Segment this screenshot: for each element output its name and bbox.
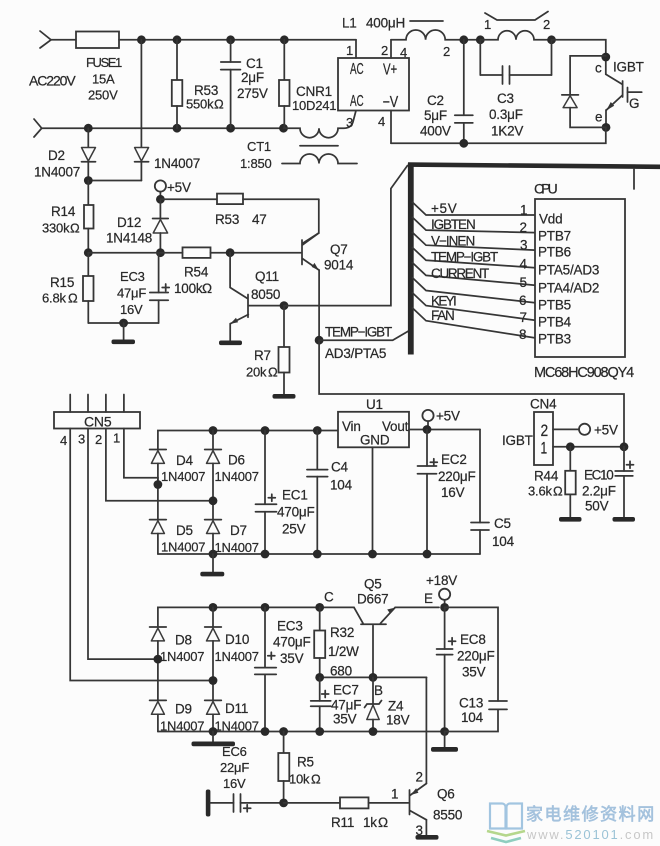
terminal +5V (U1) [422, 409, 460, 430]
svg-text:D9: D9 [175, 702, 192, 717]
svg-text:6.8k: 6.8k [42, 291, 66, 306]
svg-text:PTB4: PTB4 [538, 315, 572, 330]
svg-text:www.520101.com: www.520101.com [526, 827, 653, 842]
svg-text:1N4007: 1N4007 [161, 469, 205, 484]
svg-text:1N4007: 1N4007 [34, 165, 80, 180]
node D11 bottom [209, 727, 218, 736]
svg-text:R32: R32 [330, 625, 354, 640]
node D6 top [209, 426, 218, 435]
resistor R5 10k [278, 732, 321, 803]
svg-text:20k: 20k [246, 365, 267, 380]
wire top AC rail [119, 39, 356, 41]
ground below D11 [192, 732, 236, 747]
wire CN4 pin2 to +5V [553, 428, 579, 430]
svg-text:R11: R11 [331, 815, 354, 830]
svg-text:−V: −V [383, 94, 399, 111]
resistor R54 100k [174, 247, 212, 296]
pan symbol above coil [485, 12, 548, 21]
svg-text:1k: 1k [363, 815, 377, 830]
svg-text:KEYI: KEYI [431, 294, 457, 309]
svg-text:8050: 8050 [251, 287, 280, 302]
svg-text:+18V: +18V [426, 573, 457, 588]
svg-text:CURRENT: CURRENT [431, 266, 489, 281]
svg-text:R7: R7 [254, 348, 271, 363]
svg-text:35V: 35V [462, 665, 486, 680]
svg-text:G: G [629, 96, 639, 111]
svg-text:16V: 16V [223, 776, 246, 791]
IC U1 regulator [338, 397, 409, 448]
svg-text:Z4: Z4 [388, 699, 404, 714]
svg-text:CN4: CN4 [530, 397, 557, 412]
diode D6 1N4007 [205, 431, 259, 520]
svg-text:IGBT: IGBT [502, 433, 533, 448]
svg-text:47μF: 47μF [117, 286, 146, 301]
svg-text:10D241: 10D241 [292, 98, 336, 113]
terminal +5V (D12) [155, 180, 191, 199]
svg-text:1N4007: 1N4007 [215, 540, 259, 555]
resistor R53 47 (drive) [160, 194, 318, 227]
svg-text:1: 1 [346, 43, 353, 58]
svg-text:c: c [595, 61, 602, 76]
capacitor EC6 22uF 16V [206, 744, 284, 817]
capacitor EC1 470uF 25V [256, 431, 315, 555]
svg-text:FUSE1: FUSE1 [86, 55, 122, 70]
svg-text:CNR1: CNR1 [296, 84, 332, 99]
watermark logo book [487, 804, 525, 843]
svg-text:Ω: Ω [70, 221, 80, 236]
svg-text:Vdd: Vdd [539, 212, 562, 227]
svg-text:2: 2 [520, 220, 527, 235]
svg-text:275V: 275V [237, 86, 268, 101]
resistor R14 330k [42, 181, 94, 253]
node EC7 bottom [315, 727, 324, 736]
svg-text:550k: 550k [186, 97, 214, 112]
svg-text:C3: C3 [497, 91, 514, 106]
node EC10 top [620, 442, 629, 451]
svg-text:1N4007: 1N4007 [161, 540, 205, 555]
svg-text:2: 2 [381, 43, 388, 58]
ground EC10 [613, 517, 636, 522]
svg-text:D2: D2 [48, 148, 65, 163]
connector CN5 [54, 412, 140, 430]
wire D2-D3 junction [88, 180, 141, 182]
svg-text:50V: 50V [585, 499, 609, 514]
node Q5 base / Z4 [369, 673, 383, 698]
svg-text:R14: R14 [51, 204, 76, 219]
wire bus to pin1 +5V [413, 201, 536, 216]
node C4 bottom [313, 550, 322, 559]
pin stub CN5 top 4 [69, 395, 71, 413]
node D8/D9 junction [154, 655, 163, 664]
varistor CNR1 10D241 [279, 40, 336, 128]
svg-text:PTB3: PTB3 [538, 332, 571, 347]
svg-text:GND: GND [360, 433, 390, 448]
svg-text:EC8: EC8 [460, 632, 486, 647]
svg-text:6: 6 [519, 293, 526, 308]
svg-text:3.6k: 3.6k [528, 484, 552, 499]
svg-text:1: 1 [484, 17, 491, 32]
pin 4 bridge [378, 111, 391, 144]
svg-text:V−INEN: V−INEN [431, 234, 475, 249]
svg-text:Ω: Ω [268, 365, 278, 380]
wire L1 to coil [464, 39, 481, 41]
connector CN4 [502, 397, 557, 466]
svg-text:1N4007: 1N4007 [215, 469, 259, 484]
transformer CT1 1:850 [240, 111, 357, 172]
resistor R44 3.6k [528, 447, 576, 517]
bus stub mark [633, 169, 635, 189]
diode D12 1N4148 [106, 199, 168, 252]
svg-text:IGBTEN: IGBTEN [431, 217, 476, 232]
pin number 3 [520, 238, 527, 253]
node R5 top [279, 727, 288, 736]
diode D3 1N4007 (from fuse node) [135, 40, 200, 181]
diode D5 1N4007 [150, 520, 206, 555]
svg-text:250V: 250V [88, 88, 118, 103]
node D10 top [209, 603, 218, 612]
svg-text:35V: 35V [280, 651, 304, 666]
node D6/D7 junction [209, 496, 218, 505]
svg-text:V+: V+ [383, 62, 397, 79]
transistor Q11 8050 [230, 253, 284, 324]
svg-text:22μF: 22μF [220, 760, 249, 775]
pin 3 bridge [346, 115, 353, 130]
resistor R53 550k [172, 40, 224, 128]
svg-text:470μF: 470μF [277, 505, 315, 520]
pin stub CN5 top 2 [105, 395, 107, 413]
svg-text:2: 2 [541, 422, 549, 440]
node D7 bottom [209, 550, 218, 559]
label AC220V [29, 73, 76, 89]
node D10/D11 junction [209, 676, 218, 685]
node top rail R53 [173, 35, 182, 44]
svg-text:104: 104 [492, 534, 515, 549]
pin stub CN5 top 3 [87, 395, 89, 413]
svg-text:Q5: Q5 [364, 577, 382, 592]
svg-text:IGBT: IGBT [613, 60, 644, 75]
node top rail CNR1 [280, 35, 289, 44]
resistor R15 6.8k [42, 253, 94, 323]
wire 5V ground rail [158, 553, 480, 555]
pin stub CN5 top 1 [123, 395, 125, 413]
damper diode across IGBT [562, 56, 606, 128]
svg-text:2: 2 [543, 17, 550, 32]
ground below R15/EC3 [112, 323, 136, 344]
ground Q11 emitter [219, 324, 242, 346]
svg-text:47: 47 [252, 212, 267, 227]
svg-text:Vin: Vin [342, 419, 361, 434]
svg-text:4: 4 [400, 45, 407, 60]
svg-text:1N4148: 1N4148 [106, 231, 152, 246]
wire U1 GND [372, 447, 374, 554]
node ground link [119, 319, 128, 328]
node bottom rail R53 [173, 124, 182, 133]
svg-text:+5V: +5V [594, 423, 618, 438]
svg-text:9014: 9014 [324, 258, 354, 273]
wire CN4 pin1 rail [553, 446, 624, 448]
svg-text:Q6: Q6 [437, 787, 455, 802]
svg-text:U1: U1 [366, 397, 383, 412]
svg-text:TEMP−IGBT: TEMP−IGBT [431, 250, 498, 265]
capacitor EC7 47uF 35V [311, 677, 362, 731]
svg-text:400V: 400V [420, 124, 451, 139]
svg-text:D7: D7 [230, 523, 247, 538]
svg-text:Ω: Ω [378, 815, 388, 830]
wire L1-input to fuse [51, 39, 76, 41]
node bottom rail D2 [84, 124, 93, 133]
capacitor EC10 2.2uF 50V [582, 447, 634, 517]
svg-text:TEMP−IGBT: TEMP−IGBT [325, 325, 392, 340]
svg-text:0.3μF: 0.3μF [489, 107, 523, 122]
svg-text:7: 7 [520, 310, 527, 325]
node bottom rail CNR1/CT1 [279, 124, 288, 133]
node EC1 bottom [261, 550, 270, 559]
svg-text:Ω: Ω [214, 97, 224, 112]
wire bus to pin7 KEYI [413, 293, 536, 320]
svg-text:PTB5: PTB5 [538, 298, 571, 313]
svg-text:EC6: EC6 [222, 744, 247, 759]
inductor L1 400uH [342, 16, 464, 61]
resistor R11 1k [284, 797, 409, 830]
wire TEMP-IGBT to bus [319, 325, 408, 362]
wire base rail Q7 [88, 252, 301, 254]
wire Q7 emitter down [318, 270, 320, 340]
diode D4 1N4007 [150, 450, 206, 520]
node IGBT collector [601, 53, 610, 62]
svg-text:+5V: +5V [431, 201, 457, 216]
svg-text:C: C [324, 590, 334, 605]
svg-text:220μF: 220μF [457, 649, 495, 664]
svg-text:EC1: EC1 [282, 488, 308, 503]
diode D8 1N4007 [150, 627, 205, 700]
pin number 8 [519, 327, 526, 342]
svg-text:Q11: Q11 [255, 269, 279, 284]
svg-text:Ω: Ω [311, 772, 321, 787]
svg-text:4: 4 [60, 433, 67, 448]
zener Z4 18V [365, 677, 410, 731]
pin 2 bridge [381, 40, 391, 58]
wire bus to pin5 CURRENT [413, 263, 536, 286]
svg-text:5: 5 [520, 275, 527, 290]
svg-text:10k: 10k [289, 772, 310, 787]
svg-text:C2: C2 [427, 93, 444, 108]
svg-text:R5: R5 [297, 755, 314, 770]
svg-text:+5V: +5V [436, 409, 460, 424]
node C2 bottom [459, 139, 468, 148]
svg-text:R44: R44 [534, 469, 559, 484]
pin number 2 [520, 220, 527, 235]
svg-text:1: 1 [113, 431, 120, 446]
wire B rail [320, 676, 427, 678]
node Q11 collector [280, 301, 289, 310]
wire bus to pin4 TEMP-IGBT [413, 248, 536, 268]
wire +5V top rail [158, 431, 338, 450]
svg-text:1: 1 [520, 203, 527, 218]
capacitor EC2 220uF 16V [418, 430, 476, 555]
node EC2 bottom [423, 550, 432, 559]
svg-text:EC2: EC2 [441, 452, 467, 467]
wire 18V top rail [158, 607, 354, 627]
pin number 1 [520, 203, 527, 218]
svg-text:2: 2 [95, 432, 102, 447]
svg-text:1: 1 [391, 787, 398, 802]
svg-text:PTB6: PTB6 [538, 245, 571, 260]
node EC3b bottom [261, 727, 270, 736]
pin number 5 [520, 275, 527, 290]
svg-text:8: 8 [519, 327, 526, 342]
node fuse output [137, 35, 146, 44]
svg-text:2μF: 2μF [241, 70, 264, 85]
node U1 GND bottom [368, 550, 377, 559]
wire 18V ground rail [158, 731, 445, 733]
wire R53-47 to Q7 collector [302, 199, 319, 243]
svg-text:AC: AC [350, 93, 364, 110]
svg-text:1/2W: 1/2W [328, 644, 359, 659]
svg-text:FAN: FAN [431, 308, 455, 323]
node R44 top [566, 442, 575, 451]
wire R15/EC3 ground link [88, 322, 158, 324]
bus bar horizontal [408, 162, 660, 169]
terminal +5V (CN4) [579, 423, 618, 438]
svg-text:680: 680 [330, 664, 352, 679]
svg-text:B: B [374, 683, 383, 698]
svg-text:EC7: EC7 [333, 683, 359, 698]
pin 2 CN5 [95, 429, 213, 501]
node Z4 bottom [369, 727, 378, 736]
node EC3b top [261, 603, 270, 612]
bridge rectifier BD1 [338, 58, 409, 111]
pin number 7 [520, 310, 527, 325]
svg-text:1K2V: 1K2V [491, 124, 523, 139]
wire bus to pin3 V-INEN [413, 233, 536, 251]
svg-text:R53: R53 [215, 212, 239, 227]
wire Q11 collector to bus top [284, 166, 408, 306]
pin 4 CN5 [60, 429, 213, 681]
svg-text:D6: D6 [228, 453, 245, 468]
svg-text:CN5: CN5 [84, 414, 112, 430]
capacitor C4 104 [307, 431, 353, 555]
induction heating coil [480, 17, 551, 40]
svg-text:CPU: CPU [534, 181, 558, 197]
svg-text:2.2μF: 2.2μF [582, 484, 616, 499]
node D12 bottom / EC3 top [156, 248, 165, 257]
ground R44 [559, 517, 582, 522]
capacitor C1 [221, 40, 268, 128]
ground EC8 [431, 732, 458, 752]
diode D7 1N4007 [205, 520, 259, 555]
watermark text 520101 [526, 804, 654, 842]
ground Q6 collector [416, 835, 439, 840]
svg-text:Q7: Q7 [330, 242, 348, 257]
svg-text:2: 2 [416, 770, 423, 785]
svg-text:5μF: 5μF [424, 108, 447, 123]
node EC2 top [423, 425, 432, 434]
pin 1 CN5 [113, 429, 158, 485]
svg-text:35V: 35V [333, 712, 357, 727]
wire Q7 emitter to CN4 rail [319, 340, 624, 447]
node R54 out [226, 248, 235, 257]
terminal +18V [426, 573, 457, 607]
svg-text:D4: D4 [176, 453, 194, 468]
node C3 left / coil 1 [476, 35, 485, 44]
pin number 6 [519, 293, 526, 308]
node TEMP-IGBT tap [315, 336, 324, 345]
transistor Q6 8550 [391, 677, 462, 838]
svg-text:3: 3 [520, 238, 527, 253]
ground below D7 [200, 554, 224, 576]
svg-text:C1: C1 [246, 56, 263, 71]
svg-text:PTA4/AD2: PTA4/AD2 [538, 281, 599, 296]
svg-text:L1: L1 [342, 16, 357, 31]
capacitor C3 0.3uF 1K2V [480, 40, 551, 139]
node R32/EC7 [315, 673, 324, 682]
bus bar vertical [408, 163, 414, 355]
svg-text:PTA5/AD3: PTA5/AD3 [538, 263, 599, 278]
svg-text:100k: 100k [174, 281, 203, 296]
IC CPU MC68HC908QY4 [534, 181, 634, 382]
pin 1 bridge [346, 40, 356, 58]
svg-text:1N4007: 1N4007 [215, 649, 259, 664]
svg-text:EC3: EC3 [120, 269, 145, 284]
node EC8 bottom [440, 727, 449, 736]
svg-text:15A: 15A [92, 72, 115, 87]
diode D10 1N4007 [205, 607, 259, 700]
svg-text:D11: D11 [225, 701, 248, 716]
svg-text:8550: 8550 [433, 808, 462, 823]
wire bus to pin6 [413, 278, 536, 303]
svg-text:2: 2 [443, 44, 450, 59]
diode D11 1N4007 [205, 700, 259, 733]
svg-text:Ω: Ω [553, 484, 563, 499]
AC input arrow N (line 2) [34, 119, 42, 137]
svg-text:3: 3 [78, 432, 85, 447]
svg-text:D10: D10 [225, 632, 249, 647]
resistor R7 20k [246, 306, 290, 394]
svg-text:MC68HC908QY4: MC68HC908QY4 [534, 365, 634, 381]
wire bus to pin2 IGBTEN [413, 217, 536, 233]
svg-text:Ω: Ω [68, 291, 78, 306]
svg-text:16V: 16V [441, 485, 465, 500]
wire bottom AC rail [42, 127, 284, 129]
node R5/R11 [279, 799, 288, 808]
svg-text:C4: C4 [331, 460, 349, 475]
svg-text:PTB7: PTB7 [538, 229, 571, 244]
svg-text:家电维修资料网: 家电维修资料网 [526, 804, 654, 824]
svg-text:16V: 16V [120, 302, 143, 317]
svg-text:1: 1 [541, 440, 548, 458]
svg-text:CT1: CT1 [247, 139, 271, 154]
svg-text:18V: 18V [386, 713, 410, 728]
IGBT Q [595, 57, 644, 127]
svg-text:EC3: EC3 [277, 619, 303, 634]
svg-text:Ω: Ω [202, 281, 212, 296]
node EC1 top [261, 426, 270, 435]
node D2 bottom [84, 176, 93, 185]
svg-text:104: 104 [461, 710, 484, 725]
svg-text:47μF: 47μF [331, 698, 361, 713]
transistor Q7 9014 [302, 233, 354, 273]
svg-text:1N4007: 1N4007 [160, 649, 204, 664]
svg-text:AD3/PTA5: AD3/PTA5 [325, 346, 386, 361]
capacitor C13 104 [445, 607, 507, 731]
wire coil to IGBT collector [552, 40, 606, 57]
svg-text:104: 104 [330, 478, 353, 493]
svg-text:D667: D667 [357, 592, 388, 607]
svg-text:25V: 25V [282, 522, 306, 537]
resistor R32 1/2W 680 [314, 607, 359, 678]
svg-text:C5: C5 [494, 516, 511, 531]
svg-text:EC10: EC10 [584, 468, 614, 483]
